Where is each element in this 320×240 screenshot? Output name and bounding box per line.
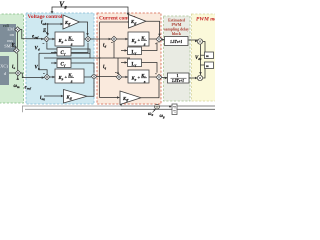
svg-text:oq: oq — [42, 97, 46, 101]
svg-text:PWM: PWM — [172, 23, 182, 27]
svg-text:+: + — [65, 75, 68, 80]
svg-text:dc: dc — [198, 57, 202, 61]
svg-text:XC): XC) — [0, 64, 8, 69]
svg-text:s: s — [143, 79, 146, 84]
svg-text:s: s — [143, 42, 146, 47]
svg-text:Estimated: Estimated — [168, 19, 186, 23]
svg-text:m: m — [206, 64, 209, 68]
svg-text:s: s — [70, 79, 73, 84]
svg-text:ous: ous — [7, 38, 13, 43]
svg-text:+: + — [65, 38, 68, 43]
svg-text:1.5T s+1: 1.5T s+1 — [172, 79, 184, 83]
svg-text:m: m — [17, 85, 20, 89]
svg-text:1.5T s+1: 1.5T s+1 — [170, 40, 182, 44]
svg-text:block: block — [172, 32, 182, 36]
svg-text:1: 1 — [177, 74, 179, 78]
svg-text:+: + — [138, 75, 141, 80]
svg-text:s: s — [70, 42, 73, 47]
svg-text:od: od — [43, 22, 47, 26]
svg-text:m: m — [206, 54, 209, 58]
svg-text:EM: EM — [7, 27, 14, 32]
svg-text:g: g — [162, 115, 165, 119]
svg-text:+: + — [138, 38, 141, 43]
svg-text:sampling delay: sampling delay — [164, 28, 189, 32]
svg-text:Voltage control: Voltage control — [28, 14, 63, 20]
svg-text:PWM mo: PWM mo — [196, 17, 215, 23]
